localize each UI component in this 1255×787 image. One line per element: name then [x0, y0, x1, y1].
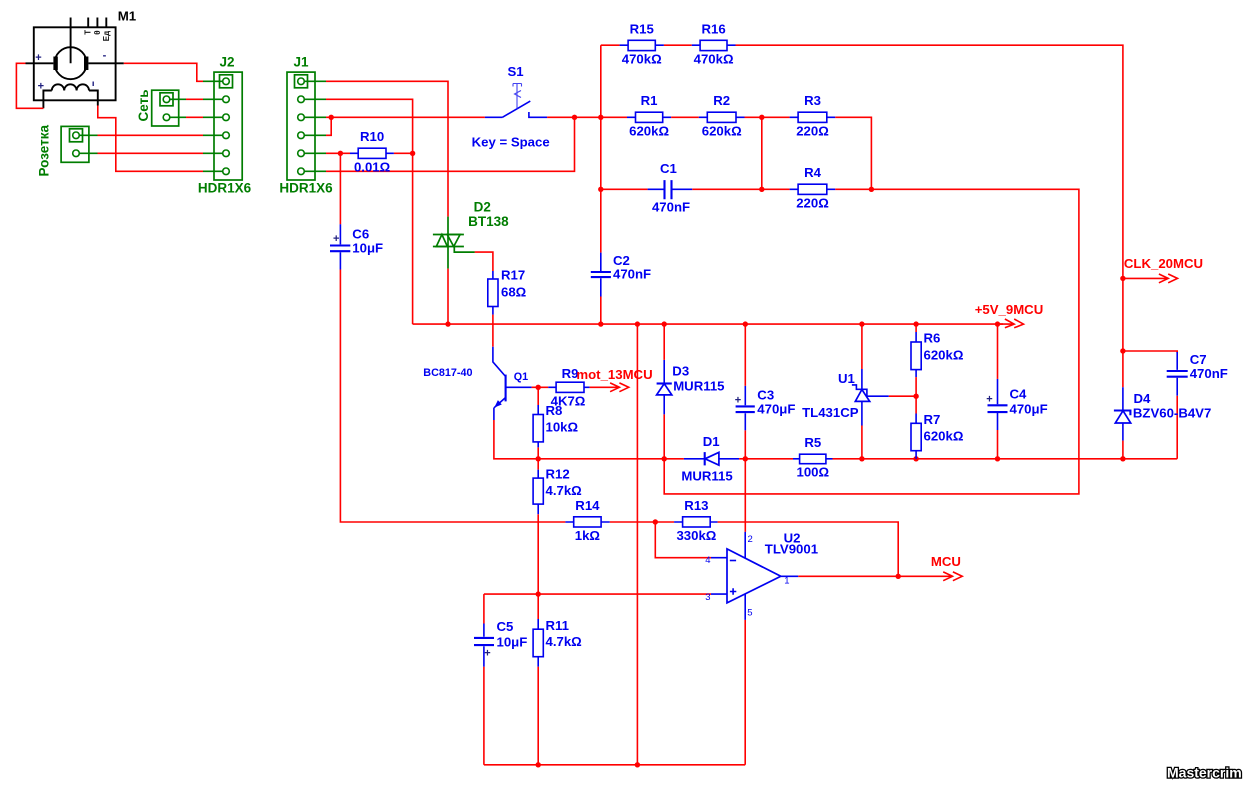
node R11 bottom junction — [536, 762, 541, 767]
wire D2 gate to R17 — [475, 252, 493, 271]
node bus D3 junction — [662, 321, 667, 326]
wire S1 output to R1 row — [547, 116, 627, 118]
connector J2 HDR1X6 — [198, 55, 252, 196]
wire U1 ref to R6R7 junction — [889, 395, 916, 397]
svg-text:R7: R7 — [924, 412, 941, 427]
wire R12 bottom to plus row — [537, 514, 539, 594]
wire J1 pin5 to R10 — [326, 152, 350, 154]
node bus C2 junction — [598, 321, 603, 326]
wire R17 bottom to Q1 collector — [492, 315, 494, 347]
node C1-R4 junction — [759, 187, 764, 192]
node bus R6 junction — [913, 321, 918, 326]
triac D2 — [433, 200, 509, 269]
wire inverting input — [655, 522, 711, 558]
resistor R16 — [692, 21, 736, 66]
node R15 column junction on R1 row — [598, 115, 603, 120]
svg-text:BZV60-B4V7: BZV60-B4V7 — [1133, 405, 1211, 420]
svg-text:3: 3 — [705, 592, 710, 603]
svg-text:R17: R17 — [501, 268, 525, 283]
svg-text:470nF: 470nF — [613, 267, 651, 282]
svg-text:R3: R3 — [804, 93, 821, 108]
svg-text:C6: C6 — [352, 227, 369, 242]
wire R1 to R2 — [671, 116, 699, 118]
svg-text:TL431CP: TL431CP — [802, 405, 859, 420]
wire J1 pin1 to triac D2 top — [326, 81, 448, 216]
diode D3 — [657, 360, 725, 415]
svg-text:D3: D3 — [672, 364, 689, 379]
wire D4 bottom red — [1122, 441, 1124, 459]
node bus C4 junction — [995, 321, 1000, 326]
svg-text:C5: C5 — [497, 619, 514, 634]
wire R11 bottom red — [537, 667, 539, 765]
node mid column bottom junction — [635, 762, 640, 767]
svg-text:J1: J1 — [293, 55, 309, 70]
node R7 bottom junction — [913, 456, 918, 461]
svg-text:mot_13MCU: mot_13MCU — [576, 367, 652, 382]
node R11 top junction — [536, 591, 541, 596]
wire C7 branch — [1123, 351, 1177, 353]
wire Розетка pin1 to J2 pin4 — [98, 134, 204, 136]
svg-text:J2: J2 — [219, 55, 234, 70]
wire op-amp pin5 to bottom rail — [744, 620, 746, 765]
node bus mid-column junction — [635, 321, 640, 326]
wire motor right terminal to J2 pin1 — [124, 63, 203, 81]
svg-text:D1: D1 — [703, 434, 720, 449]
wire J1 pin3 to pin4 — [326, 117, 331, 135]
wire noninverting input row — [484, 593, 711, 595]
svg-text:MCU: MCU — [931, 554, 961, 569]
svg-text:U1: U1 — [838, 371, 855, 386]
wire R4 right long return to D1 node — [664, 189, 1079, 494]
wire C1 row left — [601, 188, 648, 190]
node bus D2 junction — [445, 321, 450, 326]
node S1 output junction — [572, 115, 577, 120]
wire R12 top red — [537, 459, 539, 470]
svg-text:620kΩ: 620kΩ — [629, 123, 669, 138]
node bus U1 junction — [859, 321, 864, 326]
svg-text:C7: C7 — [1190, 352, 1207, 367]
net arrow mot_13MCU — [576, 367, 652, 392]
svg-text:10kΩ: 10kΩ — [546, 419, 579, 434]
wire bottom rail — [484, 764, 745, 766]
wire main row segment C — [833, 458, 1178, 460]
svg-text:HDR1X6: HDR1X6 — [198, 181, 252, 196]
node U1 bottom junction — [859, 456, 864, 461]
wire R14 to R13 — [610, 521, 674, 523]
svg-text:68Ω: 68Ω — [501, 284, 527, 299]
wire U1 top red — [861, 324, 863, 369]
svg-text:BC817-40: BC817-40 — [423, 367, 472, 379]
node Q1 base junction — [536, 385, 541, 390]
svg-text:R5: R5 — [804, 435, 821, 450]
svg-text:-: - — [103, 50, 107, 62]
node C3 bottom junction — [743, 456, 748, 461]
svg-text:+: + — [986, 394, 992, 406]
capacitor C1 — [648, 161, 693, 214]
svg-text:HDR1X6: HDR1X6 — [279, 181, 333, 196]
svg-text:TLV9001: TLV9001 — [765, 541, 818, 556]
net arrow CLK_20MCU — [1123, 256, 1203, 283]
svg-text:330kΩ: 330kΩ — [676, 528, 716, 543]
capacitor C5 — [474, 619, 527, 667]
resistor R1 — [627, 93, 671, 138]
svg-text:470kΩ: 470kΩ — [694, 52, 734, 67]
resistor R5 — [793, 435, 833, 480]
capacitor C7 — [1167, 352, 1228, 396]
node J1 pin3 junction — [329, 115, 334, 120]
wire R3 right down to R4 row — [835, 117, 871, 189]
svg-text:470μF: 470μF — [1010, 402, 1048, 417]
resistor R10 — [350, 129, 394, 174]
svg-text:Сеть: Сеть — [136, 90, 151, 122]
node R2-R3 junction — [759, 115, 764, 120]
svg-text:1: 1 — [784, 575, 789, 586]
wire R13 right feedback to output — [718, 522, 899, 576]
svg-text:2: 2 — [748, 534, 753, 545]
svg-text:5: 5 — [747, 607, 752, 618]
capacitor C3 — [735, 386, 796, 431]
svg-text:10μF: 10μF — [352, 241, 383, 256]
resistor R8 — [533, 403, 578, 447]
node R8 bottom junction — [536, 456, 541, 461]
wire R8 top red — [537, 387, 539, 405]
svg-text:MUR115: MUR115 — [681, 468, 732, 483]
wire R16 right to CLK column and down — [736, 45, 1123, 387]
wire C4 bottom red — [997, 430, 999, 459]
wire J1 pin2 down to +5V bus corner — [326, 99, 413, 324]
resistor R6 — [911, 331, 964, 378]
svg-text:+: + — [35, 52, 41, 64]
svg-text:D4: D4 — [1134, 391, 1152, 406]
resistor R9 — [548, 366, 589, 408]
node D4 bottom junction — [1120, 456, 1125, 461]
wire Сеть pin2 to J2 pin3 — [186, 116, 203, 118]
wire C6 branch down — [339, 153, 341, 224]
wire Розетка pin2 to J2 pin5 — [98, 152, 204, 154]
op-amp U2 TLV9001 — [705, 530, 818, 620]
wire op-amp pin2 supply — [744, 459, 746, 532]
node CLK junction — [1120, 276, 1125, 281]
svg-text:Key = Space: Key = Space — [472, 134, 550, 149]
svg-text:R15: R15 — [630, 21, 654, 36]
svg-text:R10: R10 — [360, 129, 384, 144]
node R6-R7 junction — [913, 394, 918, 399]
svg-text:Ед: Ед — [102, 31, 111, 41]
resistor R15 — [620, 21, 664, 66]
svg-text:470μF: 470μF — [757, 402, 795, 417]
svg-text:220Ω: 220Ω — [796, 123, 829, 138]
wire R15 row left stub — [601, 44, 620, 46]
wire main row segment A — [538, 458, 684, 460]
resistor R7 — [911, 412, 964, 459]
wire motor left loop — [16, 63, 43, 108]
wire R10 right to J1pin2 column — [394, 152, 413, 154]
svg-text:470kΩ: 470kΩ — [622, 52, 662, 67]
svg-text:620kΩ: 620kΩ — [702, 123, 742, 138]
wire D2 bottom to bus — [447, 269, 449, 325]
wire C6 bottom down to R14 row — [340, 270, 565, 523]
wire R2R3 junction down to C1 row — [761, 117, 763, 189]
resistor R14 — [565, 498, 609, 543]
svg-text:R13: R13 — [684, 498, 708, 513]
wire D3 top red — [663, 324, 665, 360]
wire R15 to R16 — [664, 44, 692, 46]
svg-text:+: + — [735, 395, 741, 407]
resistor R11 — [533, 618, 582, 667]
connector J1 HDR1X6 — [279, 55, 333, 196]
node bus C3 junction — [743, 321, 748, 326]
svg-text:Q1: Q1 — [514, 371, 528, 383]
node C4 bottom junction — [995, 456, 1000, 461]
node C1 row left junction — [598, 187, 603, 192]
svg-text:+: + — [333, 233, 339, 245]
wire C3 bottom red — [744, 430, 746, 458]
svg-text:4.7kΩ: 4.7kΩ — [546, 483, 583, 498]
svg-text:+5V_9MCU: +5V_9MCU — [975, 302, 1044, 317]
svg-text:R14: R14 — [575, 498, 600, 513]
capacitor C4 — [986, 379, 1047, 430]
wire J1 pin3 to switch S1 — [326, 116, 485, 118]
capacitor C6 — [330, 224, 383, 269]
wire R2 to R3 — [745, 116, 790, 118]
wire R6 bottom red — [915, 377, 917, 413]
svg-text:C4: C4 — [1010, 386, 1028, 401]
svg-text:R6: R6 — [924, 331, 941, 346]
net arrow MCU — [931, 554, 962, 581]
svg-text:470nF: 470nF — [1190, 366, 1228, 381]
svg-text:620kΩ: 620kΩ — [924, 429, 964, 444]
resistor R2 — [699, 93, 745, 138]
svg-text:220Ω: 220Ω — [796, 195, 829, 210]
wire C5 bottom red — [483, 667, 485, 765]
svg-text:Mastercrim: Mastercrim — [1167, 765, 1242, 781]
wire C1 to R4 — [692, 188, 789, 190]
node C7 branch junction — [1120, 348, 1125, 353]
wire C5 top red — [483, 594, 485, 623]
wire op-amp output to MCU — [798, 575, 952, 577]
wire mid column bus to bottom rail — [636, 324, 638, 765]
svg-text:100Ω: 100Ω — [797, 465, 830, 480]
transistor Q1 — [423, 347, 531, 420]
svg-text:R16: R16 — [701, 21, 725, 36]
resistor R3 — [790, 93, 836, 138]
svg-text:D2: D2 — [474, 200, 491, 215]
shunt reference U1 TL431CP — [802, 369, 889, 426]
diode D1 — [681, 434, 739, 483]
capacitor C2 — [591, 253, 651, 297]
svg-text:R4: R4 — [804, 165, 822, 180]
wire C4 top red — [997, 324, 999, 379]
resistor R4 — [790, 165, 836, 210]
node R14-R13 junction — [653, 519, 658, 524]
svg-text:S1: S1 — [508, 64, 524, 79]
motor M1 — [26, 8, 137, 108]
resistor R17 — [488, 268, 527, 315]
wire R11 top red — [537, 594, 539, 619]
svg-text:CLK_20MCU: CLK_20MCU — [1124, 256, 1203, 271]
wire main row segment B — [739, 458, 793, 460]
svg-text:R11: R11 — [546, 618, 569, 633]
svg-text:4.7kΩ: 4.7kΩ — [546, 634, 583, 649]
wire Q1 base to R9 — [532, 386, 549, 388]
connector "Сеть" — [136, 90, 186, 127]
svg-text:R1: R1 — [641, 93, 658, 108]
svg-text:10μF: 10μF — [497, 635, 528, 650]
node output feedback junction — [896, 574, 901, 579]
svg-text:620kΩ: 620kΩ — [924, 347, 964, 362]
wire Q1 emitter down to row — [494, 420, 538, 459]
svg-text:+: + — [484, 648, 490, 660]
svg-text:+: + — [38, 80, 44, 92]
wire R8 bottom red — [537, 447, 539, 458]
svg-text:θ: θ — [93, 30, 102, 34]
svg-text:MUR115: MUR115 — [673, 378, 724, 393]
resistor R12 — [533, 467, 582, 515]
wire R6 top red — [915, 324, 917, 332]
wire R15 column vertical (interrupted by C2) — [600, 45, 602, 324]
switch S1 — [472, 64, 550, 149]
connector "Розетка" — [36, 125, 97, 177]
wire +5V bus — [413, 323, 1003, 325]
wire U1 bottom red — [861, 426, 863, 459]
net arrow +5V_9MCU — [975, 302, 1044, 328]
svg-text:4: 4 — [705, 555, 710, 566]
svg-text:R2: R2 — [713, 93, 730, 108]
svg-text:C3: C3 — [757, 387, 774, 402]
svg-text:Розетка: Розетка — [36, 125, 51, 177]
svg-text:R12: R12 — [546, 467, 570, 482]
wire J1 pin6 up to S1 output node — [326, 117, 575, 171]
svg-text:0.01Ω: 0.01Ω — [354, 159, 391, 174]
svg-text:M1: M1 — [118, 8, 137, 23]
wire D3 bottom red — [663, 414, 665, 458]
svg-text:R8: R8 — [546, 403, 563, 418]
svg-text:470nF: 470nF — [652, 200, 690, 215]
wire C3 top red — [744, 324, 746, 386]
svg-text:C1: C1 — [660, 161, 677, 176]
svg-text:1kΩ: 1kΩ — [575, 528, 601, 543]
wire C7 bottom red — [1176, 396, 1178, 459]
wire motor bottom right to J2 pin6 — [98, 106, 203, 172]
svg-text:BT138: BT138 — [468, 214, 509, 229]
node R3-R4 junction — [869, 187, 874, 192]
node D3 bottom junction — [662, 456, 667, 461]
zener diode D4 — [1114, 387, 1211, 440]
wire Сеть pin1 to J2 pin2 — [186, 98, 203, 100]
node R10 right junction — [410, 151, 415, 156]
resistor R13 — [674, 498, 718, 543]
node R10 left junction — [338, 151, 343, 156]
svg-text:Т: Т — [83, 30, 92, 35]
